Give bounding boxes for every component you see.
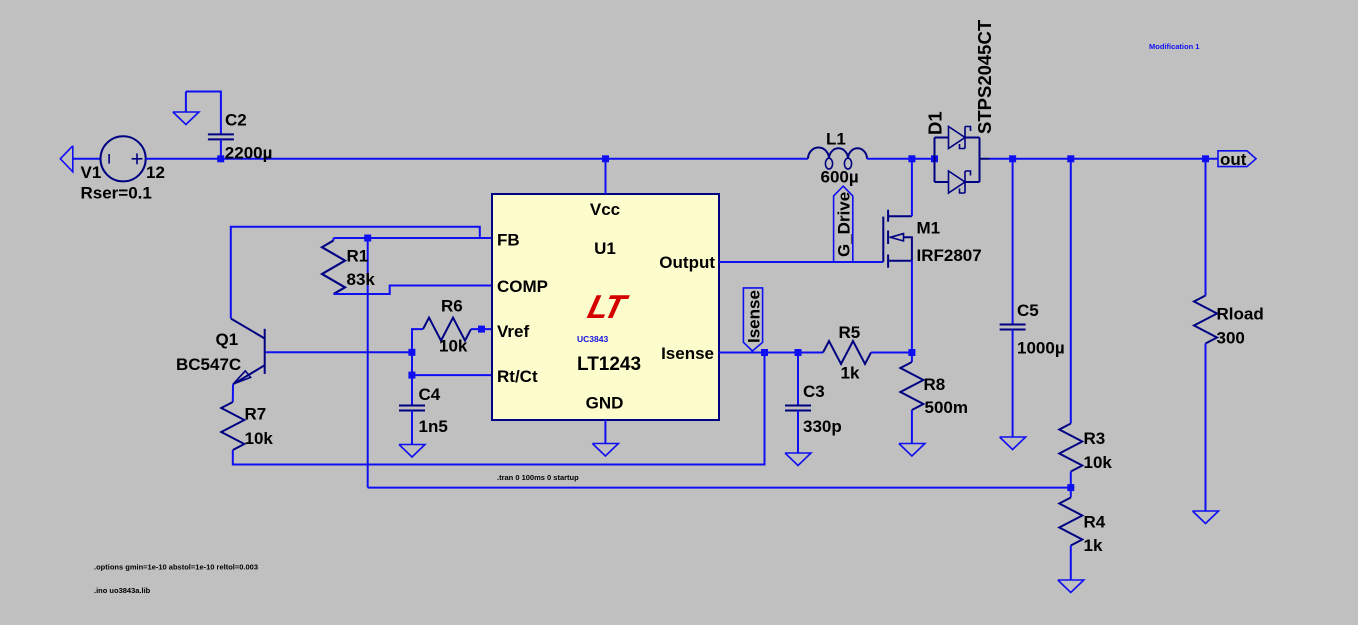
svg-text:500m: 500m: [925, 398, 968, 417]
wire C2 bottom: [220, 139, 222, 158]
wire R3 bottom: [1070, 472, 1072, 498]
svg-text:R3: R3: [1084, 429, 1106, 448]
wire R3 top column: [1070, 159, 1072, 424]
svg-text:R5: R5: [839, 323, 861, 342]
ground GND-C5: [1000, 437, 1026, 450]
ground GND-Rload: [1193, 511, 1219, 524]
node FB-feedback junction: [364, 235, 371, 242]
resistor R1: [322, 241, 345, 295]
net flag G_Drive: [834, 186, 854, 261]
svg-text:FB: FB: [497, 231, 520, 250]
resistor R6: [423, 318, 471, 341]
svg-text:Vcc: Vcc: [590, 200, 620, 219]
svg-text:UC3843: UC3843: [577, 334, 608, 344]
ground GND-R8: [899, 444, 925, 457]
wire M1 source down: [911, 261, 913, 353]
node Isense-bottomrail junction: [761, 349, 768, 356]
node C5-rail: [1009, 155, 1016, 162]
svg-text:Q1: Q1: [216, 330, 239, 349]
svg-text:R7: R7: [245, 405, 267, 424]
svg-text:1k: 1k: [841, 364, 860, 383]
svg-text:C3: C3: [803, 382, 825, 401]
node Vref pin: [478, 326, 485, 333]
svg-text:C4: C4: [419, 385, 441, 404]
svg-text:12: 12: [146, 163, 165, 182]
wire C2 top: [186, 92, 221, 135]
svg-text:V1: V1: [81, 163, 102, 182]
resistor R5: [823, 341, 871, 364]
ground GND-C3: [785, 453, 811, 466]
wire C4 bottom: [411, 411, 413, 445]
capacitor C3: [785, 353, 811, 454]
node R3-rail: [1067, 155, 1074, 162]
wire C5 bottom: [1012, 330, 1014, 438]
svg-text:D1: D1: [925, 111, 946, 135]
svg-text:300: 300: [1217, 329, 1245, 348]
wire FB to R1 top: [334, 238, 492, 241]
node M1 drain-rail: [908, 155, 915, 162]
svg-text:.options gmin=1e-10 abstol=1e-: .options gmin=1e-10 abstol=1e-10 reltol=…: [94, 563, 258, 572]
svg-text:COMP: COMP: [497, 277, 548, 296]
wire R7 bottom rail: [233, 353, 765, 465]
ground GND-C4: [399, 445, 425, 458]
wire R5 right lead: [871, 352, 912, 354]
node C2-rail: [217, 155, 224, 162]
svg-text:G_Drive: G_Drive: [835, 192, 854, 257]
svg-text:R6: R6: [441, 297, 463, 316]
wire L1 right to D1: [867, 158, 935, 160]
svg-text:1k: 1k: [1084, 536, 1103, 555]
resistor R8: [900, 353, 923, 444]
wire R6 left lead: [412, 329, 423, 352]
wire feedback vertical: [367, 238, 369, 488]
svg-text:10k: 10k: [245, 429, 274, 448]
svg-text:R4: R4: [1084, 513, 1106, 532]
wire R1 bottom to COMP: [334, 286, 492, 295]
svg-text:C5: C5: [1017, 301, 1039, 320]
node Rt/Ct junction: [408, 372, 415, 379]
ground GND-U1: [592, 444, 618, 457]
wire C4 column upper: [411, 352, 413, 405]
wire Rt/Ct: [412, 374, 492, 376]
wire feedback horizontal to R3/R4: [368, 487, 1071, 489]
svg-text:10k: 10k: [439, 337, 468, 356]
svg-text:Vref: Vref: [497, 322, 529, 341]
diode D1 (dual schottky STPS2045CT): [935, 127, 990, 194]
capacitor C5: [1000, 325, 1026, 330]
resistor R4: [1059, 498, 1082, 546]
wire Isense pin: [719, 352, 823, 354]
svg-text:R8: R8: [924, 375, 946, 394]
resistor R7: [221, 402, 244, 450]
svg-text:U1: U1: [594, 239, 616, 258]
node R5-R8-M1 junction: [908, 349, 915, 356]
wire R6 right lead to Vref: [471, 328, 492, 330]
svg-text:BC547C: BC547C: [176, 355, 241, 374]
svg-text:IRF2807: IRF2807: [917, 246, 982, 265]
wire D1 out rail: [990, 158, 1219, 160]
svg-text:2200µ: 2200µ: [225, 143, 273, 162]
svg-text:GND: GND: [586, 394, 624, 413]
node C3 junction: [795, 349, 802, 356]
node out-rail: [1202, 155, 1209, 162]
wire Q1 emitter to R7: [232, 384, 234, 402]
svg-text:Isense: Isense: [661, 344, 714, 363]
wire C5 top column: [1012, 159, 1014, 325]
svg-text:R1: R1: [347, 247, 369, 266]
svg-text:.tran 0 100ms 0 startup: .tran 0 100ms 0 startup: [497, 473, 579, 482]
wire U1 GND pin: [604, 420, 606, 444]
wire Rload bottom: [1205, 344, 1207, 512]
wire Q1 base: [266, 351, 412, 353]
wire Rload top column: [1205, 159, 1207, 296]
svg-text:Rser=0.1: Rser=0.1: [81, 183, 152, 202]
op-amp U1 body (LT1243): [492, 194, 719, 420]
ground GND-R4: [1058, 580, 1084, 593]
node R3-R4-feedback junction: [1067, 484, 1074, 491]
wire M1 drain: [911, 159, 913, 216]
svg-text:L1: L1: [826, 130, 846, 149]
transistor Q1: [231, 319, 265, 385]
svg-text:83k: 83k: [347, 270, 376, 289]
wire R4 bottom: [1070, 546, 1072, 581]
wire Output to M1 gate: [719, 261, 883, 263]
ground GND-V1 (rotated left): [60, 146, 73, 172]
svg-text:STPS2045CT: STPS2045CT: [974, 19, 995, 134]
svg-text:Rt/Ct: Rt/Ct: [497, 367, 538, 386]
node D1 left: [931, 155, 938, 162]
svg-text:LT1243: LT1243: [577, 354, 641, 375]
svg-text:330p: 330p: [803, 417, 842, 436]
svg-text:out: out: [1220, 150, 1247, 169]
svg-text:M1: M1: [917, 219, 941, 238]
node base-R6-C4 junction: [408, 349, 415, 356]
svg-text:C2: C2: [225, 111, 247, 130]
mosfet M1: [883, 210, 912, 268]
node Vcc-rail: [602, 155, 609, 162]
net flag out: [1218, 150, 1256, 169]
svg-text:Modification 1: Modification 1: [1149, 42, 1199, 51]
svg-text:Output: Output: [659, 253, 715, 272]
svg-text:1n5: 1n5: [419, 417, 448, 436]
svg-text:1000µ: 1000µ: [1017, 339, 1065, 358]
resistor R3: [1059, 424, 1082, 472]
svg-text:Isense: Isense: [745, 290, 764, 343]
wire Q1 collector riser: [231, 227, 480, 319]
voltage source V1: [101, 136, 146, 181]
wire V1 minus stub: [73, 158, 101, 160]
wire Vcc drop: [605, 159, 607, 194]
capacitor C2: [208, 134, 234, 139]
svg-text:10k: 10k: [1084, 453, 1113, 472]
capacitor C4: [399, 406, 425, 411]
wire main rail V1 to L1: [146, 158, 808, 160]
ground GND-C2: [173, 92, 199, 125]
resistor Rload: [1194, 296, 1217, 344]
svg-text:600µ: 600µ: [821, 168, 859, 187]
svg-text:.ino uo3843a.lib: .ino uo3843a.lib: [94, 586, 151, 595]
svg-text:Rload: Rload: [1217, 305, 1264, 324]
net flag Isense: [743, 288, 763, 351]
inductor L1: [808, 148, 867, 170]
